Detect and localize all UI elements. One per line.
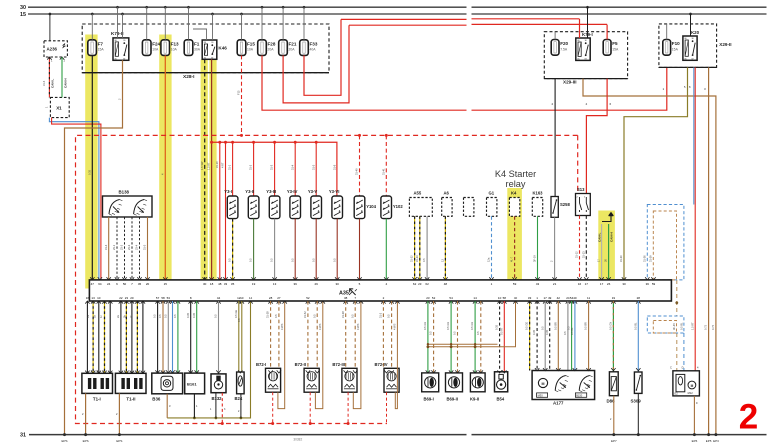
svg-text:K9-II: K9-II [470,397,479,402]
svg-text:X29-III: X29-III [563,80,577,85]
svg-text:0.5: 0.5 [228,258,232,262]
svg-text:B72-III: B72-III [332,362,345,367]
svg-text:62: 62 [425,282,429,286]
svg-text:30: 30 [585,40,587,42]
svg-text:31: 31 [20,433,26,439]
svg-text:B54: B54 [497,397,505,402]
svg-text:31-10: 31-10 [215,161,219,168]
svg-text:EPS: EPS [61,439,67,443]
svg-text:C: C [670,366,672,370]
svg-text:31-36: 31-36 [642,255,646,262]
svg-text:F15: F15 [237,90,241,95]
svg-text:K46: K46 [218,46,227,51]
svg-text:14: 14 [249,296,253,300]
svg-text:87: 87 [585,59,587,61]
svg-text:31-52: 31-52 [303,311,307,318]
svg-text:CAN-L: CAN-L [597,233,601,242]
svg-text:A177: A177 [553,401,564,406]
svg-text:0.5: 0.5 [249,258,253,262]
svg-text:48: 48 [444,282,448,286]
svg-text:58: 58 [503,296,507,300]
svg-text:64: 64 [98,282,102,286]
svg-text:30: 30 [123,40,125,42]
svg-text:31-2: 31-2 [379,312,383,318]
svg-text:relay: relay [506,179,526,189]
svg-text:58: 58 [161,296,165,300]
svg-text:22: 22 [119,296,123,300]
svg-text:B24: B24 [235,396,243,401]
svg-text:31-3: 31-3 [270,164,274,170]
svg-text:F24: F24 [152,41,160,46]
svg-text:3F-45: 3F-45 [672,323,676,330]
svg-text:86: 86 [204,42,206,44]
svg-text:11: 11 [587,296,590,300]
svg-text:0.5: 0.5 [290,258,294,262]
svg-text:0.35: 0.35 [532,329,536,335]
svg-text:0.5: 0.5 [453,331,457,335]
svg-text:M12: M12 [688,391,694,395]
svg-text:2: 2 [739,398,758,437]
svg-text:21: 21 [553,282,557,286]
svg-text:1.5 RT: 1.5 RT [207,162,211,170]
svg-text:B72-IV: B72-IV [375,362,388,367]
svg-text:10A: 10A [152,48,159,52]
svg-text:87: 87 [692,58,694,60]
svg-text:F28: F28 [268,41,276,46]
svg-text:T1-I: T1-I [93,396,101,401]
svg-text:24: 24 [107,282,111,286]
svg-text:31-30: 31-30 [619,255,623,262]
svg-text:85: 85 [577,59,579,61]
svg-text:Y3-V: Y3-V [308,189,318,194]
svg-text:Y3-IV: Y3-IV [287,189,298,194]
svg-text:1.5 SW: 1.5 SW [200,161,204,170]
svg-text:0.5 GN: 0.5 GN [446,322,450,330]
svg-text:0.5: 0.5 [270,258,274,262]
svg-text:33: 33 [528,296,532,300]
svg-text:Y3-III: Y3-III [266,189,276,194]
svg-text:57: 57 [156,296,160,300]
svg-text:0.35: 0.35 [495,324,499,330]
svg-text:18: 18 [210,282,214,286]
svg-text:26: 26 [607,282,611,286]
svg-text:47: 47 [91,282,95,286]
svg-text:0.5: 0.5 [429,331,433,335]
svg-text:0.5: 0.5 [158,314,162,318]
svg-text:31-23: 31-23 [415,255,419,262]
svg-text:30382: 30382 [293,438,302,442]
svg-text:M: M [542,382,545,386]
svg-text:4 WS: 4 WS [280,323,284,330]
svg-text:0.5: 0.5 [153,314,157,318]
svg-text:31-5: 31-5 [311,164,315,170]
svg-text:31-28: 31-28 [266,311,270,318]
svg-text:23-3: 23-3 [127,244,131,250]
svg-text:30: 30 [203,282,207,286]
svg-text:31-41: 31-41 [381,168,385,175]
svg-text:38: 38 [344,296,348,300]
svg-text:1.5 RT: 1.5 RT [691,322,695,330]
svg-text:F20: F20 [560,41,568,46]
svg-text:17: 17 [600,282,604,286]
svg-text:85: 85 [685,58,687,60]
svg-text:M30: M30 [538,394,544,398]
svg-text:10A: 10A [171,48,178,52]
svg-text:F7: F7 [98,41,104,46]
svg-text:15A: 15A [98,48,105,52]
svg-text:49: 49 [548,296,552,300]
svg-text:31-22: 31-22 [410,255,414,262]
svg-text:B161: B161 [187,382,197,387]
svg-text:31-40: 31-40 [355,168,359,175]
svg-text:S258: S258 [560,202,570,207]
svg-text:50: 50 [123,282,127,286]
svg-text:Y3-II: Y3-II [245,189,254,194]
svg-text:S309: S309 [631,399,642,404]
svg-text:59: 59 [513,282,517,286]
svg-text:0.5: 0.5 [237,318,241,322]
svg-text:45: 45 [138,282,142,286]
svg-text:20: 20 [130,296,134,300]
svg-text:0.5: 0.5 [274,314,278,318]
svg-text:EPS: EPS [116,439,122,443]
svg-text:31-6: 31-6 [332,164,336,170]
svg-text:52: 52 [306,296,310,300]
svg-text:30: 30 [20,5,26,11]
svg-text:54: 54 [449,296,453,300]
svg-text:13: 13 [91,296,95,300]
svg-text:B69-II: B69-II [447,397,458,402]
svg-text:0.5: 0.5 [312,314,316,318]
svg-text:31-5: 31-5 [143,244,147,250]
svg-text:23-1: 23-1 [112,244,116,250]
svg-text:0.5: 0.5 [173,314,177,318]
svg-text:27: 27 [277,296,281,300]
svg-text:52: 52 [432,296,436,300]
svg-text:86: 86 [685,38,687,40]
svg-text:33: 33 [224,282,228,286]
svg-text:CAN L: CAN L [51,79,55,88]
svg-text:0.5: 0.5 [422,258,426,262]
svg-text:4 WS: 4 WS [356,323,360,330]
svg-text:0.5 GE: 0.5 GE [234,310,238,318]
svg-text:28: 28 [269,296,273,300]
svg-text:39: 39 [294,282,298,286]
svg-text:53: 53 [167,296,171,300]
svg-text:15: 15 [164,282,168,286]
svg-text:86: 86 [115,40,117,42]
svg-text:0.35: 0.35 [87,169,91,175]
svg-text:0.5: 0.5 [563,331,567,335]
svg-text:CAN H: CAN H [63,79,67,89]
svg-text:0.35: 0.35 [545,329,549,335]
svg-text:14: 14 [473,296,477,300]
svg-text:0.5 BL: 0.5 BL [633,322,637,330]
svg-text:0.5: 0.5 [540,326,544,330]
svg-text:B72-I: B72-I [256,362,266,367]
svg-text:23-2: 23-2 [120,244,124,250]
svg-text:4 RT: 4 RT [221,162,225,168]
svg-text:F21: F21 [289,41,297,46]
svg-text:10: 10 [498,296,502,300]
svg-text:0.5 GN: 0.5 GN [609,322,613,330]
svg-text:X28-I: X28-I [183,74,195,80]
svg-text:30A: 30A [194,48,201,52]
svg-text:20: 20 [146,282,150,286]
svg-text:0.75: 0.75 [704,324,708,330]
svg-text:B132: B132 [212,396,223,401]
svg-text:B72-II: B72-II [295,362,306,367]
svg-text:B36: B36 [152,396,161,401]
svg-text:42: 42 [557,296,561,300]
svg-text:0.5 GN: 0.5 GN [423,322,427,330]
svg-text:30: 30 [211,42,213,44]
svg-text:20A: 20A [268,48,275,52]
svg-text:S13: S13 [577,187,585,192]
svg-text:31-2: 31-2 [249,164,253,170]
svg-text:0.5 RT: 0.5 RT [499,327,503,335]
svg-text:EP6: EP6 [692,439,698,443]
svg-text:0.75: 0.75 [711,324,715,330]
svg-text:0.5: 0.5 [163,314,167,318]
svg-text:0.5: 0.5 [476,331,480,335]
svg-text:31-4: 31-4 [104,244,108,250]
svg-text:23: 23 [418,282,422,286]
svg-text:16: 16 [578,282,582,286]
svg-text:Y102: Y102 [393,204,403,209]
svg-text:K4: K4 [511,191,517,196]
svg-text:K163: K163 [533,191,544,196]
svg-text:59: 59 [652,282,656,286]
svg-text:87: 87 [211,57,213,59]
svg-text:4 WS: 4 WS [318,323,322,330]
svg-text:4 WS: 4 WS [393,323,397,330]
svg-text:43: 43 [536,282,540,286]
svg-text:19: 19 [612,296,616,300]
svg-text:12a: 12a [487,257,491,262]
svg-text:85: 85 [204,57,206,59]
svg-text:10: 10 [97,296,101,300]
svg-text:0.35: 0.35 [192,312,196,318]
svg-text:A6: A6 [444,191,450,196]
svg-text:B150: B150 [576,394,583,398]
svg-text:31-38: 31-38 [341,311,345,318]
svg-text:F15: F15 [247,41,255,46]
svg-text:4L-7: 4L-7 [510,256,514,262]
svg-text:31-12: 31-12 [575,251,579,258]
svg-text:Y104: Y104 [366,204,376,209]
svg-text:EP5: EP5 [706,439,712,443]
svg-text:31-1: 31-1 [228,164,232,170]
svg-text:0.5 GE: 0.5 GE [525,322,529,330]
svg-text:F1: F1 [194,41,200,46]
svg-text:D: D [682,366,684,370]
svg-text:Y3-I: Y3-I [224,189,232,194]
svg-text:62: 62 [413,282,417,286]
svg-text:EP3: EP3 [713,439,719,443]
svg-text:17: 17 [544,296,548,300]
svg-text:15A: 15A [612,47,619,51]
svg-text:K20: K20 [691,30,700,35]
svg-text:X29-II: X29-II [719,42,731,47]
svg-text:B69-I: B69-I [424,397,434,402]
svg-text:87: 87 [123,58,125,60]
svg-text:M: M [691,384,694,388]
svg-text:0.5 BL: 0.5 BL [570,327,574,335]
svg-text:F33: F33 [310,41,318,46]
svg-text:7.5A: 7.5A [560,47,568,51]
svg-text:F5: F5 [612,41,618,46]
svg-text:0.5: 0.5 [350,314,354,318]
svg-text:28: 28 [637,296,641,300]
svg-text:23: 23 [426,296,430,300]
svg-text:48: 48 [218,282,222,286]
svg-text:23-4: 23-4 [135,244,139,250]
svg-text:19: 19 [252,282,256,286]
svg-text:16: 16 [86,296,90,300]
svg-text:23: 23 [125,296,129,300]
svg-text:20A: 20A [289,48,296,52]
svg-text:35: 35 [231,282,235,286]
svg-text:30: 30 [336,282,340,286]
svg-text:0.35: 0.35 [186,312,190,318]
svg-text:31-4: 31-4 [290,164,294,170]
svg-text:31-6: 31-6 [42,80,46,86]
svg-text:E2: E2 [675,392,679,396]
svg-text:0.5 GN: 0.5 GN [470,322,474,330]
svg-text:F13: F13 [171,41,179,46]
svg-text:F10: F10 [672,41,680,46]
svg-text:10A: 10A [247,48,254,52]
svg-text:K4 Starter: K4 Starter [495,169,536,179]
svg-text:0.5 BR: 0.5 BR [553,322,557,330]
svg-text:31-59: 31-59 [649,255,653,262]
svg-text:10: 10 [240,296,244,300]
svg-text:31-13: 31-13 [581,251,585,258]
svg-text:29: 29 [315,282,319,286]
svg-text:30: 30 [692,38,694,40]
svg-text:Y3-VI: Y3-VI [329,189,339,194]
svg-text:40A: 40A [310,48,317,52]
svg-text:3F-19: 3F-19 [533,255,537,262]
svg-text:A236: A236 [47,47,58,52]
svg-text:0.5: 0.5 [387,314,391,318]
svg-text:EPS: EPS [83,439,89,443]
svg-text:G1: G1 [489,191,495,196]
svg-text:0.5 BR: 0.5 BR [584,322,588,330]
svg-text:EP7: EP7 [611,439,617,443]
svg-text:A55: A55 [414,191,422,196]
svg-text:86: 86 [577,40,579,42]
svg-text:0.5: 0.5 [332,258,336,262]
svg-text:17: 17 [585,282,589,286]
svg-text:CAN-H: CAN-H [609,232,613,242]
svg-text:85: 85 [115,58,117,60]
svg-text:B138: B138 [119,190,130,195]
svg-text:40: 40 [514,296,518,300]
svg-text:30: 30 [622,282,626,286]
svg-text:15A: 15A [672,47,679,51]
svg-text:13: 13 [273,282,277,286]
svg-text:0.5: 0.5 [311,258,315,262]
svg-text:0.5 BL: 0.5 BL [679,322,683,330]
svg-text:15: 15 [20,12,26,18]
svg-text:40: 40 [573,296,577,300]
svg-text:0.5: 0.5 [214,314,218,318]
svg-text:36: 36 [646,282,650,286]
svg-text:T1-II: T1-II [126,396,135,401]
svg-text:44: 44 [217,296,221,300]
